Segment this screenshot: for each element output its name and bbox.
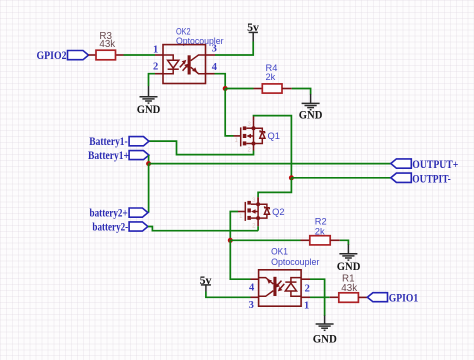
- svg-text:OK1: OK1: [271, 246, 288, 256]
- power 5v top: [247, 20, 259, 42]
- svg-text:OUTPUT+: OUTPUT+: [412, 157, 458, 171]
- svg-text:Battery1+: Battery1+: [88, 148, 129, 162]
- transistor Q1 (N-MOSFET): [235, 117, 280, 154]
- svg-text:3: 3: [248, 122, 252, 128]
- svg-text:GPIO1: GPIO1: [389, 291, 418, 305]
- wire GPIO2 to R3: [89, 54, 97, 56]
- svg-text:GND: GND: [137, 102, 161, 116]
- wire junction B to Q2 drain: [258, 178, 291, 204]
- junction C (Battery1+/battery2+/OUTPUT+): [146, 161, 151, 166]
- svg-text:1: 1: [239, 214, 243, 220]
- svg-text:battery2+: battery2+: [90, 205, 128, 219]
- junction A (pin4/R4/Q1 gate): [223, 86, 228, 91]
- svg-text:4: 4: [212, 62, 218, 73]
- wire Q1 source to Battery1-: [149, 141, 254, 155]
- wire 5v to OK2 pin3: [206, 42, 254, 56]
- resistor R1: [339, 273, 368, 302]
- resistor R2: [310, 217, 340, 245]
- connector battery2-: [92, 219, 147, 233]
- svg-text:Q2: Q2: [272, 207, 284, 217]
- wire OK1 pin2 to GND: [301, 279, 325, 316]
- connector Battery1-: [89, 134, 149, 148]
- wire junction to Q1 gate: [225, 89, 240, 136]
- svg-text:1: 1: [304, 301, 309, 312]
- ground GND (below OK2): [137, 86, 161, 116]
- svg-text:2: 2: [248, 148, 252, 154]
- wire junction to R4: [225, 88, 262, 90]
- wire OK2 pin4 to junction: [206, 74, 226, 89]
- svg-text:3: 3: [252, 198, 256, 204]
- wire rail to OUTPUT+: [149, 163, 391, 165]
- svg-text:Battery1-: Battery1-: [89, 134, 127, 148]
- power 5v bottom: [200, 273, 212, 292]
- wire OK1 pin1 to R1: [301, 296, 339, 298]
- ground GND (right of R2): [337, 245, 361, 274]
- svg-text:43k: 43k: [99, 39, 115, 50]
- connector OUTPUT+: [391, 157, 459, 171]
- svg-text:GND: GND: [299, 108, 323, 122]
- connector GPIO2: [37, 48, 89, 62]
- svg-text:R2: R2: [315, 217, 327, 227]
- svg-text:OK2: OK2: [176, 26, 191, 36]
- wire R4 to GND: [292, 89, 311, 95]
- wire Battery1+ down to junction C: [148, 155, 150, 164]
- svg-text:OUTPIT-: OUTPIT-: [412, 171, 451, 185]
- wire Q2 gate to junction D: [230, 212, 245, 241]
- svg-text:1: 1: [235, 138, 239, 144]
- connector Battery1+: [88, 148, 149, 162]
- connector OUTPIT-: [391, 171, 451, 185]
- svg-text:2: 2: [305, 283, 310, 294]
- wire R3 to OK2 pin1: [124, 54, 164, 56]
- svg-text:battery2-: battery2-: [92, 219, 128, 233]
- svg-text:GND: GND: [337, 259, 361, 273]
- svg-text:2: 2: [153, 62, 158, 73]
- resistor R3: [96, 31, 124, 60]
- wire Q2 source to battery2- rail: [257, 226, 259, 230]
- svg-text:2k: 2k: [315, 226, 325, 236]
- svg-text:Optocoupler: Optocoupler: [271, 257, 319, 267]
- svg-text:3: 3: [249, 300, 254, 311]
- svg-text:4: 4: [249, 283, 255, 294]
- wire Q1 drain to junction B: [254, 116, 292, 178]
- wire junction D to R2: [230, 239, 309, 241]
- svg-text:Q1: Q1: [268, 131, 280, 141]
- wire junction C down to battery2+: [148, 164, 150, 213]
- connector battery2+: [90, 205, 148, 219]
- ground GND (right of R4): [299, 94, 323, 122]
- wire 5v to OK1 pin3: [206, 292, 259, 298]
- svg-text:2: 2: [252, 224, 256, 230]
- wire R2 to GND: [340, 240, 349, 245]
- optocoupler OK1: [259, 246, 320, 306]
- junction B (drains/OUTPIT-): [289, 175, 294, 180]
- svg-text:GPIO2: GPIO2: [37, 48, 67, 62]
- optocoupler OK2: [163, 26, 224, 83]
- wire battery2- to Q2 source: [148, 227, 258, 231]
- svg-text:1: 1: [153, 44, 158, 55]
- wire OK2 pin2 to GND: [149, 74, 164, 86]
- ground GND (below OK1): [313, 316, 337, 346]
- resistor R4: [262, 63, 292, 93]
- svg-text:2k: 2k: [266, 72, 276, 82]
- transistor Q2 (N-MOSFET): [239, 197, 284, 229]
- svg-text:3: 3: [212, 44, 217, 55]
- junction D (Q2 gate/R2/OK1 pin4): [228, 238, 233, 243]
- svg-text:GND: GND: [313, 332, 337, 346]
- wire junction D to OK1 pin4: [230, 240, 258, 279]
- connector GPIO1: [367, 291, 418, 305]
- wire junction B to OUTPIT-: [291, 177, 390, 179]
